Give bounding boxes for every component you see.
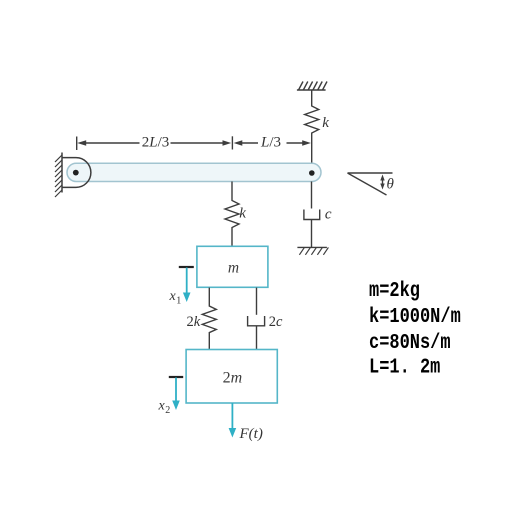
- svg-text:k: k: [239, 206, 246, 222]
- svg-text:2: 2: [165, 405, 170, 416]
- svg-text:1: 1: [176, 296, 181, 307]
- svg-text:2c: 2c: [269, 314, 283, 330]
- svg-text:c=80Ns/m: c=80Ns/m: [369, 330, 451, 354]
- svg-text:θ: θ: [387, 177, 395, 193]
- svg-text:m: m: [228, 260, 239, 277]
- svg-text:2k: 2k: [187, 314, 201, 330]
- svg-text:k=1000N/m: k=1000N/m: [369, 304, 461, 328]
- svg-text:L/3: L/3: [260, 134, 281, 150]
- svg-text:m=2kg: m=2kg: [369, 278, 420, 302]
- svg-text:L=1. 2m: L=1. 2m: [369, 355, 440, 379]
- svg-text:2m: 2m: [223, 370, 243, 387]
- svg-text:k: k: [322, 115, 329, 131]
- svg-text:F(t): F(t): [239, 426, 263, 442]
- svg-text:2L/3: 2L/3: [142, 134, 170, 150]
- svg-text:c: c: [325, 206, 332, 222]
